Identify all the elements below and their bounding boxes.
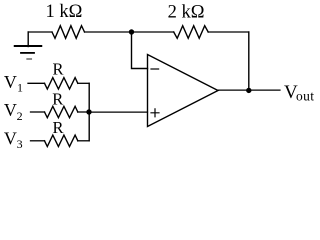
svg-text:2 kΩ: 2 kΩ (168, 2, 205, 22)
wire R2 to right corner (208, 31, 249, 33)
op-amp U1 plus pin mark (151, 109, 159, 117)
wire V1 label to R (28, 82, 45, 84)
wire R2-row to bus (78, 111, 89, 113)
wire V2 label to R (31, 111, 45, 113)
node B bus junction dot (86, 109, 91, 114)
wire ground to R1 (28, 31, 52, 33)
svg-text:2: 2 (17, 109, 23, 123)
svg-text:V: V (4, 100, 17, 120)
wire summing bus vertical (88, 83, 90, 141)
svg-text:V: V (4, 72, 17, 92)
svg-text:R: R (52, 90, 63, 109)
op-amp U1 minus pin mark (151, 68, 159, 70)
svg-text:1: 1 (17, 81, 23, 95)
wire bus node to non-inverting input (89, 111, 148, 113)
ground (15, 32, 42, 59)
svg-text:out: out (296, 89, 314, 104)
resistor R1 1 kOhm (52, 26, 85, 39)
svg-text:3: 3 (17, 137, 23, 151)
wire V3 label to R (31, 140, 45, 142)
svg-text:R: R (53, 118, 64, 137)
svg-text:1 kΩ: 1 kΩ (46, 2, 83, 22)
svg-text:R: R (53, 59, 64, 78)
wire R3-row to bus (78, 140, 89, 142)
wire node A to R2 (132, 31, 174, 33)
svg-text:V: V (4, 128, 17, 148)
node A junction dot (129, 29, 134, 34)
wire R1 to node A (85, 31, 132, 33)
resistor R (input 3) (45, 135, 78, 146)
resistor R (input 1) (45, 78, 78, 89)
wire feedback vertical down to output node (248, 32, 250, 90)
resistor R (input 2) (45, 106, 78, 117)
wire op-amp output to Vout (218, 89, 280, 91)
node output junction dot (246, 88, 251, 93)
wire node A down to inverting input (132, 32, 148, 69)
resistor R2 2 kOhm (174, 26, 209, 39)
wire R1-row to bus (78, 82, 89, 84)
op-amp U1 (148, 55, 219, 127)
